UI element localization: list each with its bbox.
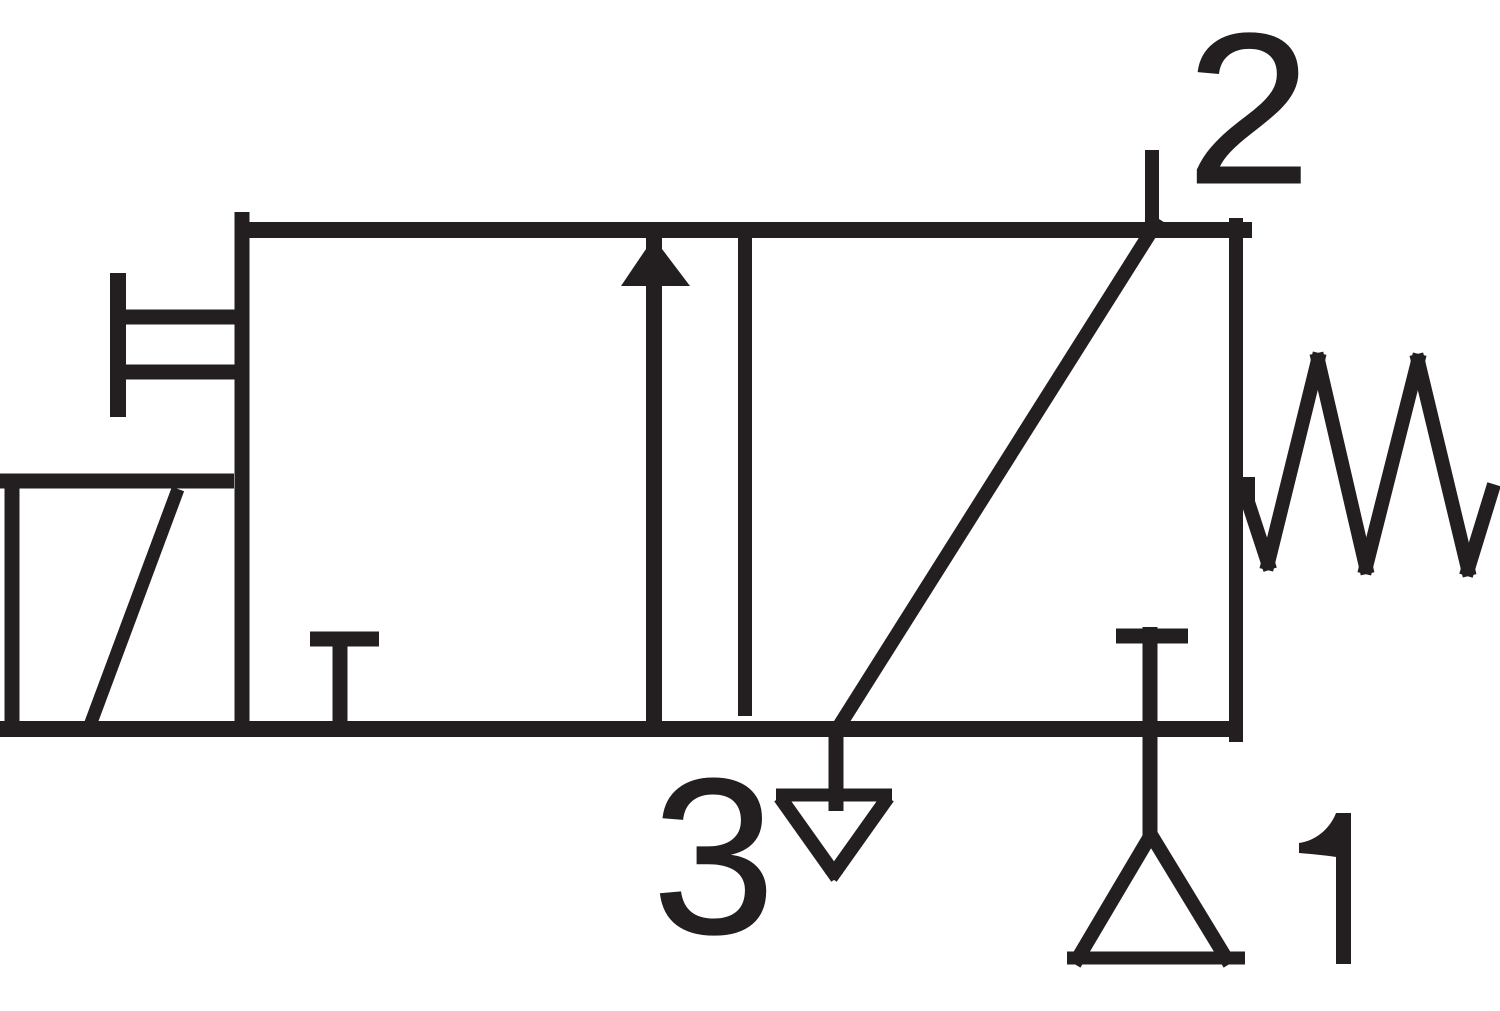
blocked port T (position 1) bar: [310, 632, 379, 647]
port 3 exhaust triangle top bar: [776, 789, 892, 802]
manual override lower link: [112, 365, 242, 380]
port 3 exhaust triangle right side: [835, 803, 884, 872]
port 3 stem: [829, 729, 844, 811]
return spring: [1248, 360, 1492, 569]
solenoid armature diagonal: [89, 489, 178, 728]
svg-text:2: 2: [1186, 0, 1312, 229]
valve body right edge: [1229, 218, 1243, 742]
flow diagonal (position 2 path 2-3): [836, 219, 1159, 731]
flow arrow shaft (position 1 path 1-2): [646, 280, 662, 737]
port 1 triangle left side: [1078, 838, 1149, 958]
port 3 exhaust triangle left side: [784, 803, 833, 872]
port 1 stem through body: [1143, 627, 1158, 837]
solenoid box top edge: [0, 474, 234, 489]
blocked port T (position 2) bar: [1116, 629, 1188, 644]
valve body bottom edge: [0, 721, 1243, 737]
svg-text:3: 3: [652, 733, 775, 981]
solenoid box left edge: [5, 476, 20, 737]
valve body left edge: [235, 212, 250, 737]
port 1 triangle base: [1067, 952, 1245, 965]
port 1 triangle right side: [1153, 838, 1226, 958]
manual override upper link: [112, 310, 242, 325]
port label 1: [1299, 813, 1351, 964]
manual override stem: [110, 273, 126, 417]
flow arrow head: [621, 238, 690, 286]
valve body top edge: [236, 222, 1252, 238]
port 2 stub: [1145, 150, 1159, 238]
position divider: [738, 224, 752, 716]
blocked port T (position 1) stem: [333, 641, 348, 729]
